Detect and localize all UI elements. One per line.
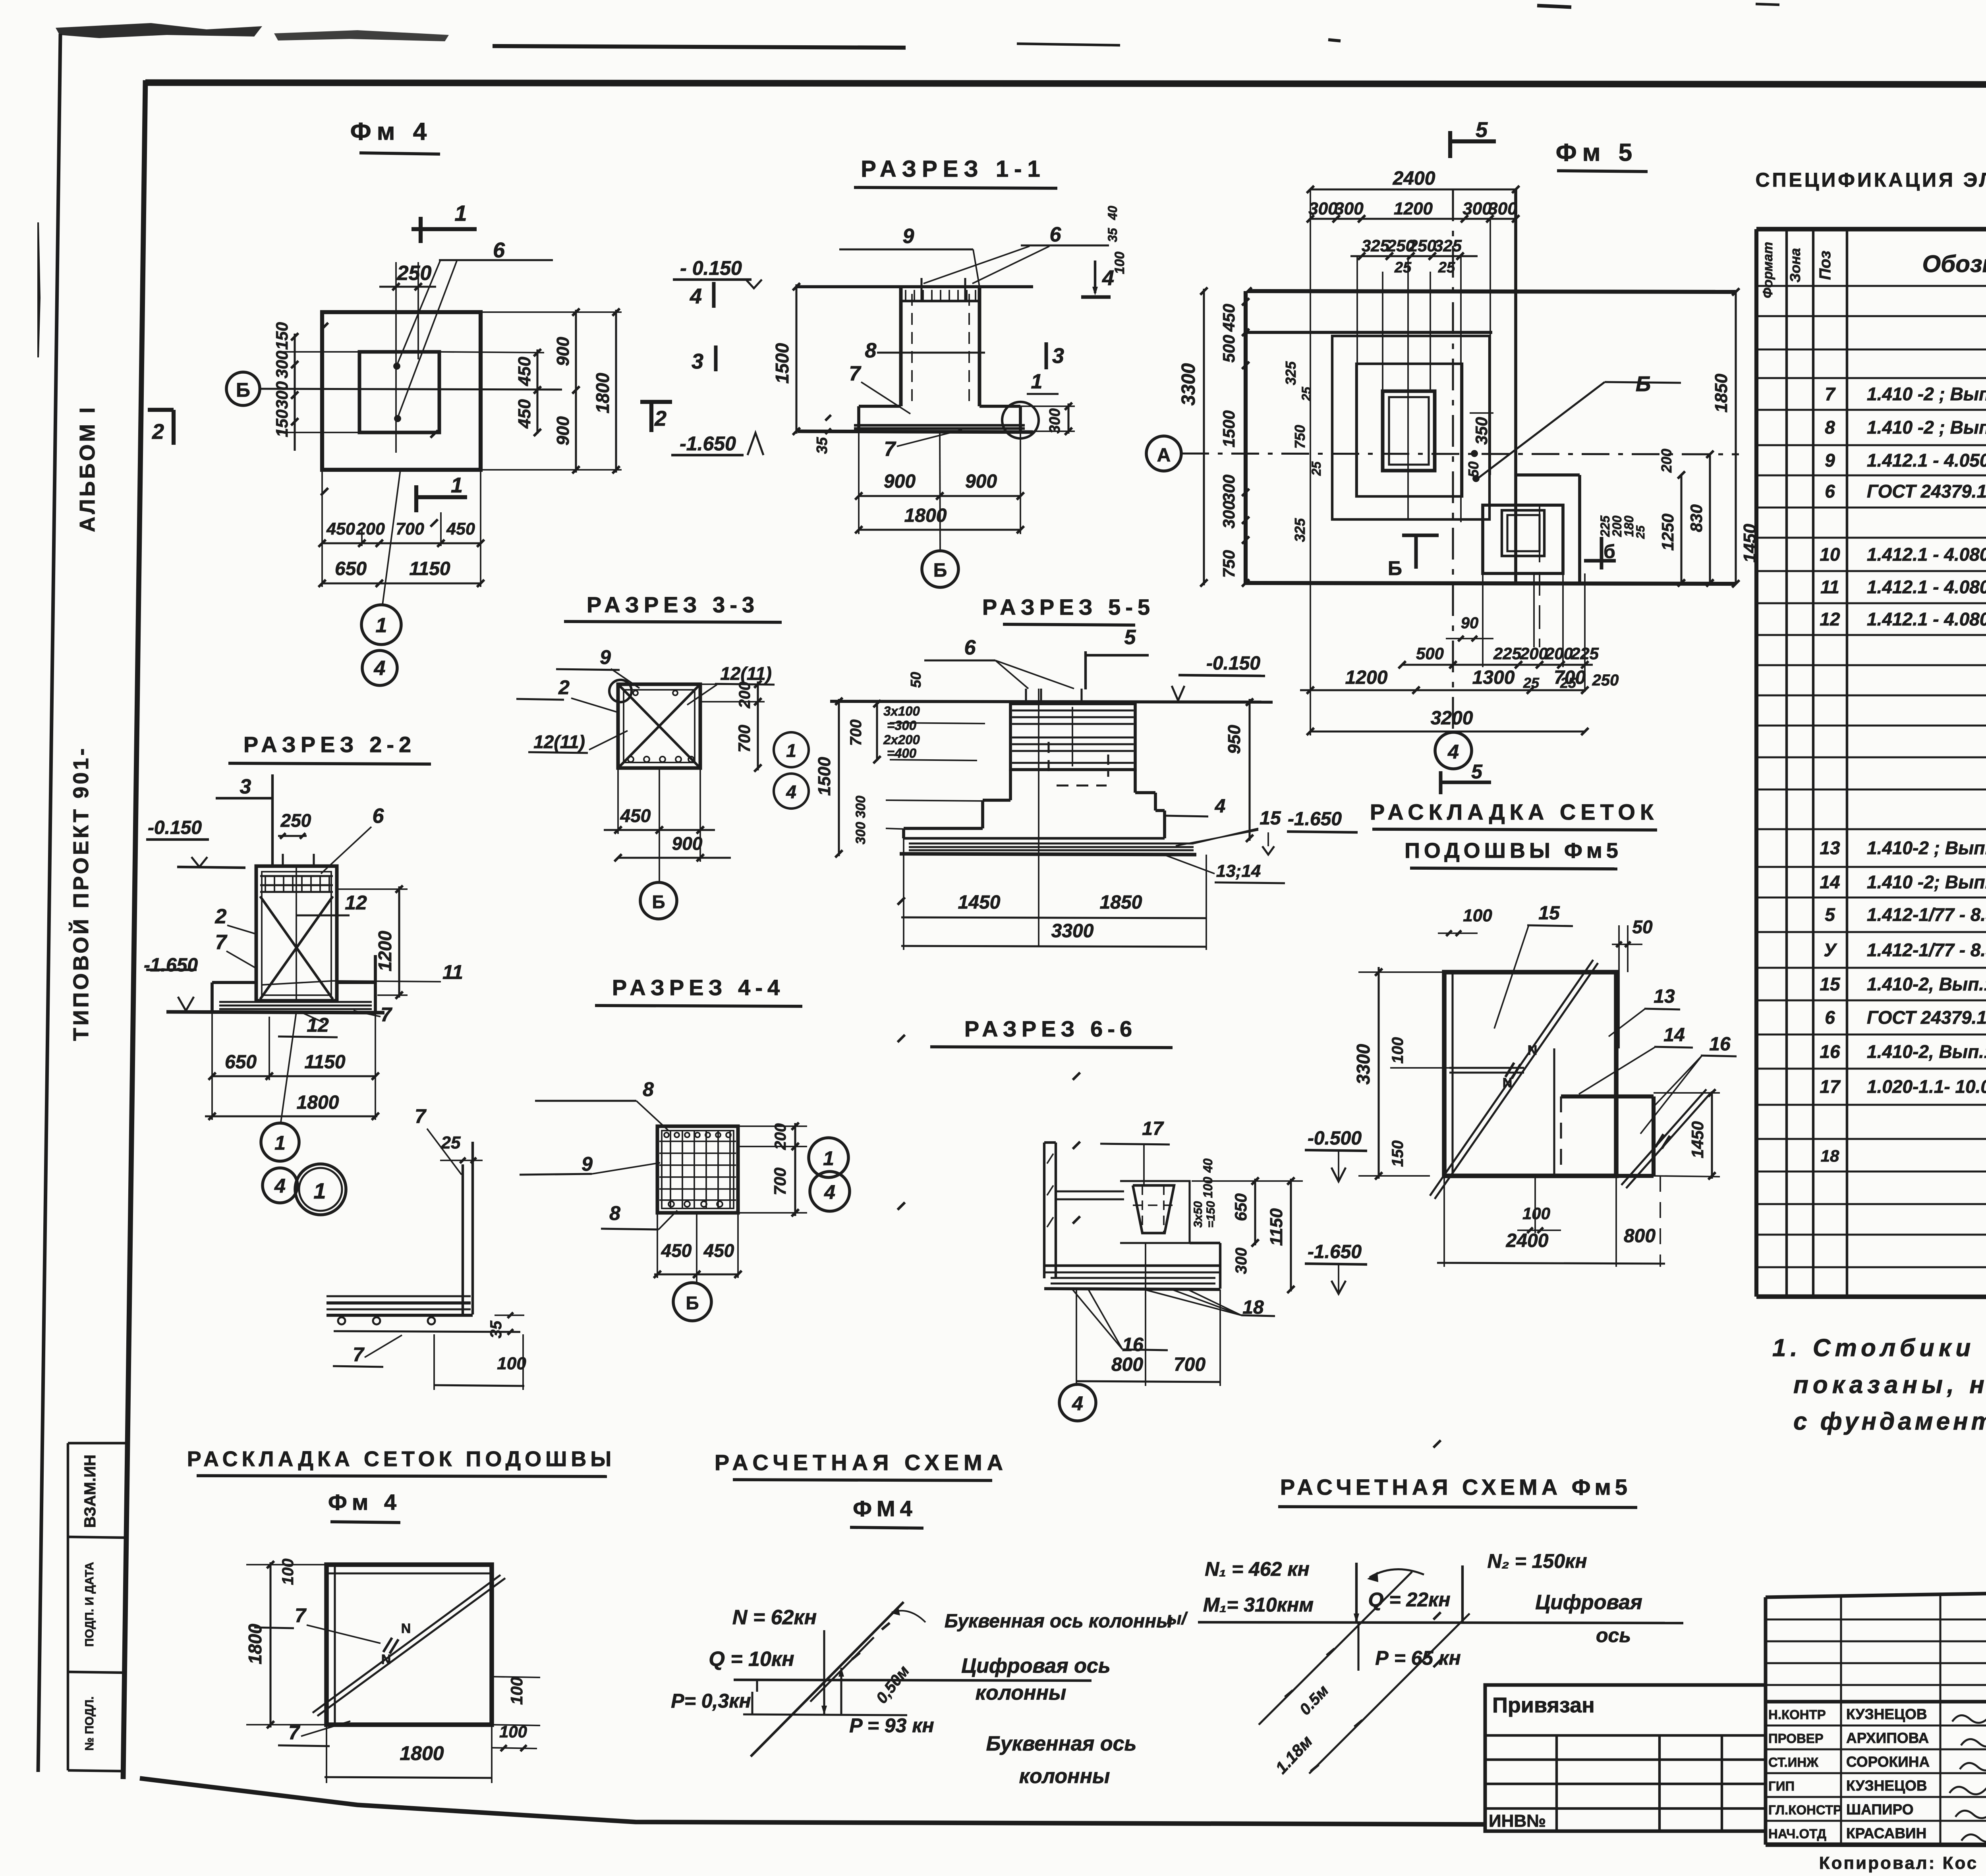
- svg-text:Б: Б: [933, 560, 947, 581]
- svg-text:200: 200: [772, 1123, 789, 1150]
- svg-text:РАЗРЕЗ 3-3: РАЗРЕЗ 3-3: [587, 592, 759, 617]
- svg-text:100: 100: [507, 1677, 526, 1705]
- svg-text:700: 700: [771, 1168, 789, 1195]
- svg-text:12: 12: [307, 1014, 329, 1036]
- svg-text:ГОСТ 24379.1- 80: ГОСТ 24379.1- 80: [1867, 481, 1986, 502]
- svg-text:РАСКЛАДКА СЕТОК: РАСКЛАДКА СЕТОК: [1370, 799, 1658, 824]
- mesh layout FM5 drawing: [1444, 972, 1616, 1176]
- svg-text:4: 4: [1215, 796, 1226, 817]
- svg-text:300: 300: [853, 796, 868, 818]
- svg-text:Поз: Поз: [1816, 251, 1834, 280]
- svg-text:15: 15: [1820, 974, 1841, 994]
- svg-text:колонны: колонны: [976, 1681, 1066, 1704]
- svg-text:8: 8: [609, 1202, 620, 1224]
- slab edge detail: [295, 1164, 346, 1215]
- svg-text:100: 100: [499, 1722, 527, 1741]
- svg-text:325: 325: [1292, 518, 1308, 542]
- svg-text:800: 800: [1111, 1354, 1143, 1375]
- svg-text:б: б: [1603, 541, 1615, 562]
- svg-text:17: 17: [1820, 1076, 1841, 1097]
- svg-text:250: 250: [1408, 236, 1436, 255]
- svg-text:Б: Б: [1636, 372, 1651, 396]
- svg-text:35: 35: [1105, 228, 1120, 242]
- svg-text:ПОДП. И ДАТА: ПОДП. И ДАТА: [83, 1562, 96, 1647]
- svg-text:-1.650: -1.650: [1308, 1241, 1362, 1262]
- svg-text:200: 200: [1658, 449, 1675, 473]
- svg-text:450: 450: [326, 519, 355, 538]
- svg-text:N: N: [401, 1621, 411, 1636]
- svg-text:6: 6: [493, 238, 505, 262]
- svg-text:450: 450: [1219, 304, 1238, 332]
- svg-text:1150: 1150: [304, 1052, 346, 1073]
- mesh layout FM5 title: [1439, 771, 1443, 794]
- svg-text:Q = 10кн: Q = 10кн: [709, 1648, 794, 1671]
- svg-text:300: 300: [1233, 1248, 1250, 1274]
- svg-text:300: 300: [1219, 501, 1238, 529]
- svg-text:ГЛ.КОНСТР: ГЛ.КОНСТР: [1768, 1803, 1842, 1817]
- svg-text:7: 7: [353, 1343, 365, 1366]
- svg-text:35: 35: [814, 437, 831, 454]
- svg-text:350: 350: [1472, 417, 1491, 445]
- svg-text:40: 40: [1201, 1158, 1215, 1173]
- svg-text:Копировал: Кос: Копировал: Кос: [1819, 1853, 1978, 1873]
- title block: [1766, 1585, 1986, 1597]
- svg-text:6: 6: [1050, 223, 1062, 246]
- svg-text:1.412-1/77 - 8.3 - 060: 1.412-1/77 - 8.3 - 060: [1867, 904, 1986, 925]
- svg-text:3: 3: [1052, 344, 1064, 368]
- svg-text:ГИП: ГИП: [1768, 1779, 1795, 1793]
- svg-text:950: 950: [1225, 725, 1244, 754]
- svg-text:1: 1: [274, 1132, 286, 1154]
- svg-text:700: 700: [1174, 1354, 1206, 1375]
- svg-text:ось: ось: [1596, 1624, 1631, 1646]
- svg-text:650: 650: [1231, 1193, 1250, 1221]
- svg-text:500: 500: [1416, 644, 1444, 663]
- svg-text:Зона: Зона: [1787, 248, 1803, 283]
- svg-text:40: 40: [1105, 206, 1120, 220]
- svg-text:2400: 2400: [1506, 1230, 1549, 1251]
- svg-text:300: 300: [853, 822, 868, 845]
- svg-text:P= 0,3кн: P= 0,3кн: [671, 1690, 751, 1712]
- svg-text:150: 150: [272, 322, 291, 350]
- svg-text:1.412-1/77 - 8.3 - 110: 1.412-1/77 - 8.3 - 110: [1867, 940, 1986, 960]
- svg-text:650: 650: [335, 558, 367, 579]
- svg-text:1300: 1300: [1472, 667, 1515, 688]
- svg-text:НАЧ.ОТД: НАЧ.ОТД: [1768, 1826, 1826, 1841]
- svg-text:1.412.1 - 4.080: 1.412.1 - 4.080: [1867, 544, 1986, 565]
- svg-text:-0.500: -0.500: [1308, 1128, 1362, 1149]
- svg-text:3200: 3200: [1431, 708, 1473, 729]
- svg-text:90: 90: [1461, 614, 1479, 632]
- svg-text:100: 100: [1201, 1177, 1215, 1198]
- svg-text:РАЗРЕЗ 6-6: РАЗРЕЗ 6-6: [964, 1016, 1137, 1041]
- svg-text:5: 5: [1471, 760, 1483, 783]
- svg-text:700: 700: [735, 725, 753, 753]
- svg-text:АРХИПОВА: АРХИПОВА: [1846, 1730, 1929, 1746]
- svg-text:14: 14: [1820, 872, 1840, 892]
- svg-text:1450: 1450: [958, 892, 1001, 913]
- svg-text:1.410-2 ; Вып.1: 1.410-2 ; Вып.1: [1867, 838, 1986, 858]
- svg-text:250: 250: [280, 810, 311, 831]
- svg-text:1850: 1850: [1100, 892, 1142, 913]
- svg-text:3: 3: [692, 349, 703, 373]
- svg-text:12: 12: [1820, 609, 1840, 629]
- svg-text:100: 100: [279, 1559, 297, 1585]
- svg-text:ШАПИРО: ШАПИРО: [1846, 1801, 1914, 1818]
- svg-text:1800: 1800: [297, 1092, 339, 1113]
- svg-text:2: 2: [152, 420, 164, 444]
- svg-text:300: 300: [1219, 475, 1238, 502]
- svg-text:РАЗРЕЗ 1-1: РАЗРЕЗ 1-1: [861, 156, 1045, 182]
- svg-text:200: 200: [356, 519, 385, 538]
- svg-text:ПРОВЕР: ПРОВЕР: [1768, 1731, 1824, 1746]
- svg-text:1800: 1800: [245, 1623, 265, 1664]
- privyazan table: [1485, 1685, 1766, 1831]
- svg-text:6: 6: [1825, 1007, 1835, 1028]
- svg-text:ВЗАМ.ИН: ВЗАМ.ИН: [81, 1455, 99, 1528]
- svg-text:1.410-2, Вып.1: 1.410-2, Вып.1: [1867, 1041, 1986, 1062]
- svg-text:9: 9: [582, 1153, 593, 1175]
- svg-text:5: 5: [1825, 904, 1835, 925]
- svg-text:700: 700: [847, 720, 865, 746]
- svg-text:ФМ4: ФМ4: [853, 1496, 917, 1521]
- svg-text:1.412.1 - 4.050: 1.412.1 - 4.050: [1867, 450, 1986, 471]
- svg-text:14: 14: [1663, 1025, 1685, 1046]
- svg-text:1800: 1800: [400, 1742, 444, 1764]
- svg-text:-1.650: -1.650: [1288, 809, 1342, 830]
- svg-text:5: 5: [1124, 626, 1136, 649]
- svg-text:300: 300: [272, 351, 291, 378]
- svg-text:1150: 1150: [409, 558, 450, 579]
- svg-text:-0.150: -0.150: [1206, 653, 1260, 674]
- svg-text:СПЕЦИФИКАЦИЯ ЭЛЕМЕНТОВ МОНОЛ: СПЕЦИФИКАЦИЯ ЭЛЕМЕНТОВ МОНОЛИТНОЙ КОНСТР…: [1755, 168, 1986, 191]
- svg-text:100: 100: [1389, 1037, 1406, 1064]
- svg-text:450: 450: [703, 1240, 734, 1261]
- svg-text:150: 150: [1389, 1141, 1406, 1167]
- svg-text:325: 325: [1434, 236, 1462, 255]
- svg-text:Фм 5: Фм 5: [1556, 139, 1638, 166]
- svg-text:225: 225: [1571, 644, 1599, 663]
- svg-text:500: 500: [1219, 335, 1238, 363]
- svg-text:Б: Б: [236, 379, 250, 401]
- svg-text:А: А: [1157, 445, 1171, 466]
- svg-text:N₂ = 150кн: N₂ = 150кн: [1487, 1550, 1587, 1572]
- svg-text:5: 5: [1476, 118, 1488, 142]
- svg-text:1.410 -2; Вып.1: 1.410 -2; Вып.1: [1867, 872, 1986, 892]
- svg-text:6: 6: [373, 805, 384, 828]
- svg-text:9: 9: [903, 225, 914, 248]
- svg-text:16: 16: [1709, 1034, 1731, 1055]
- svg-text:900: 900: [553, 416, 573, 446]
- svg-text:с фундаментам.: с фундаментам.: [1793, 1408, 1986, 1435]
- svg-text:Обозначение: Обозначение: [1922, 251, 1986, 277]
- svg-text:4: 4: [786, 782, 796, 802]
- svg-text:2: 2: [558, 676, 570, 699]
- svg-text:показаны, но выполнять их в од: показаны, но выполнять их в одной опалуб…: [1793, 1371, 1986, 1399]
- svg-text:100: 100: [497, 1354, 526, 1373]
- svg-text:3: 3: [240, 775, 251, 798]
- svg-text:=400: =400: [887, 746, 917, 760]
- svg-text:1500: 1500: [1219, 410, 1238, 447]
- svg-text:100: 100: [1522, 1204, 1550, 1223]
- svg-text:3х100: 3х100: [883, 704, 920, 718]
- svg-text:Формат: Формат: [1760, 242, 1775, 298]
- svg-text:РАСКЛАДКА СЕТОК ПОДОШВЫ: РАСКЛАДКА СЕТОК ПОДОШВЫ: [187, 1447, 616, 1471]
- svg-text:7: 7: [288, 1722, 300, 1744]
- page border frame: [38, 34, 60, 1772]
- svg-text:ы/: ы/: [1167, 1609, 1188, 1628]
- svg-text:250: 250: [1592, 672, 1619, 689]
- svg-text:1850: 1850: [1712, 374, 1731, 413]
- svg-text:4: 4: [374, 657, 386, 680]
- svg-text:900: 900: [553, 337, 573, 366]
- svg-text:№ ПОДЛ.: № ПОДЛ.: [83, 1696, 96, 1751]
- svg-text:N: N: [1503, 1075, 1513, 1090]
- svg-text:1: 1: [454, 201, 467, 226]
- svg-text:25: 25: [1309, 461, 1323, 476]
- svg-text:Буквенная ось: Буквенная ось: [986, 1732, 1137, 1755]
- svg-text:7: 7: [415, 1105, 427, 1127]
- svg-text:13: 13: [1820, 838, 1840, 858]
- svg-text:1800: 1800: [592, 372, 613, 413]
- svg-text:25: 25: [1634, 525, 1647, 539]
- svg-text:=150: =150: [1204, 1201, 1217, 1228]
- svg-text:N: N: [1528, 1043, 1538, 1058]
- svg-text:50: 50: [908, 672, 924, 688]
- svg-text:150: 150: [272, 409, 291, 437]
- svg-text:1450: 1450: [1688, 1121, 1707, 1158]
- svg-text:7: 7: [295, 1604, 307, 1627]
- svg-text:450: 450: [620, 805, 651, 826]
- svg-text:2: 2: [654, 407, 667, 430]
- svg-text:8: 8: [1825, 417, 1835, 438]
- svg-text:1200: 1200: [1394, 199, 1433, 218]
- svg-text:100: 100: [1463, 906, 1492, 925]
- svg-text:2: 2: [215, 905, 227, 928]
- svg-text:СОРОКИНА: СОРОКИНА: [1846, 1754, 1930, 1770]
- svg-text:200: 200: [736, 682, 753, 709]
- svg-text:325: 325: [1283, 361, 1299, 385]
- svg-text:У: У: [1824, 940, 1837, 960]
- svg-text:1.410-2, Вып.1: 1.410-2, Вып.1: [1867, 974, 1986, 994]
- svg-text:100: 100: [1112, 252, 1127, 274]
- svg-text:РАЗРЕЗ 4-4: РАЗРЕЗ 4-4: [612, 975, 784, 1000]
- svg-text:25: 25: [1394, 259, 1412, 276]
- svg-text:4: 4: [690, 284, 702, 308]
- svg-text:Цифровая: Цифровая: [1535, 1591, 1642, 1614]
- svg-text:РАЗРЕЗ 2-2: РАЗРЕЗ 2-2: [243, 732, 416, 757]
- svg-text:3300: 3300: [1178, 363, 1199, 405]
- svg-text:12(11): 12(11): [533, 731, 585, 752]
- svg-text:450: 450: [515, 357, 534, 386]
- svg-text:1.410 -2 ; Вып. 1: 1.410 -2 ; Вып. 1: [1867, 417, 1986, 438]
- svg-text:50: 50: [1632, 917, 1653, 937]
- svg-text:700: 700: [396, 519, 424, 538]
- svg-text:12: 12: [345, 892, 367, 914]
- svg-text:830: 830: [1687, 504, 1706, 532]
- svg-text:7: 7: [849, 362, 862, 385]
- svg-text:15: 15: [1538, 903, 1560, 924]
- svg-text:1500: 1500: [815, 757, 834, 796]
- svg-text:P = 93 кн: P = 93 кн: [849, 1714, 934, 1737]
- svg-text:13;14: 13;14: [1216, 861, 1261, 881]
- svg-text:9: 9: [1825, 450, 1835, 471]
- svg-text:7: 7: [215, 931, 228, 954]
- svg-text:1: 1: [313, 1178, 326, 1203]
- svg-text:1200: 1200: [375, 930, 395, 971]
- svg-text:3300: 3300: [1051, 921, 1094, 942]
- svg-text:300: 300: [272, 381, 291, 409]
- svg-text:-1.650: -1.650: [680, 432, 736, 455]
- svg-text:КУЗНЕЦОВ: КУЗНЕЦОВ: [1846, 1706, 1927, 1722]
- svg-text:КРАСАВИН: КРАСАВИН: [1846, 1825, 1926, 1841]
- svg-text:Б: Б: [1388, 557, 1402, 579]
- svg-text:17: 17: [1142, 1118, 1164, 1139]
- svg-text:6: 6: [1825, 481, 1835, 502]
- svg-text:N: N: [381, 1652, 391, 1667]
- svg-text:Фм 4: Фм 4: [350, 118, 433, 145]
- svg-text:Б: Б: [686, 1293, 699, 1313]
- svg-text:Б: Б: [652, 892, 665, 912]
- svg-text:0,50м: 0,50м: [873, 1662, 913, 1707]
- svg-text:900: 900: [672, 833, 703, 854]
- svg-text:КУЗНЕЦОВ: КУЗНЕЦОВ: [1846, 1778, 1927, 1794]
- svg-text:1: 1: [451, 473, 463, 497]
- left margin stamp strip: [67, 1443, 69, 1770]
- svg-text:1: 1: [376, 614, 387, 637]
- svg-text:250: 250: [397, 262, 432, 285]
- svg-text:50: 50: [1465, 461, 1482, 477]
- svg-text:Н.КОНТР: Н.КОНТР: [1768, 1707, 1826, 1722]
- svg-text:РАЗРЕЗ 5-5: РАЗРЕЗ 5-5: [982, 594, 1155, 620]
- svg-text:4: 4: [274, 1175, 286, 1197]
- svg-text:Q = 22кн: Q = 22кн: [1368, 1588, 1450, 1611]
- svg-text:800: 800: [1624, 1226, 1656, 1247]
- svg-text:Буквенная ось колонны: Буквенная ось колонны: [945, 1611, 1173, 1632]
- svg-text:16: 16: [1820, 1041, 1840, 1062]
- svg-text:16: 16: [1122, 1334, 1144, 1355]
- scan smudges top: [56, 23, 262, 38]
- svg-text:2х200: 2х200: [883, 732, 920, 747]
- svg-text:8: 8: [643, 1078, 654, 1100]
- svg-text:6: 6: [964, 636, 976, 659]
- svg-text:1250: 1250: [1658, 513, 1677, 550]
- svg-text:650: 650: [225, 1052, 257, 1073]
- svg-text:СТ.ИНЖ: СТ.ИНЖ: [1768, 1755, 1818, 1770]
- svg-text:7: 7: [1825, 384, 1836, 404]
- svg-text:700: 700: [1554, 667, 1586, 688]
- svg-text:Цифровая ось: Цифровая ось: [961, 1654, 1110, 1677]
- svg-text:7: 7: [884, 438, 896, 461]
- svg-text:4: 4: [1447, 741, 1459, 763]
- svg-text:450: 450: [446, 519, 475, 538]
- svg-text:N₁ = 462 кн: N₁ = 462 кн: [1205, 1558, 1310, 1580]
- svg-text:1200: 1200: [1345, 667, 1388, 688]
- svg-text:1.18м: 1.18м: [1272, 1732, 1316, 1778]
- svg-text:25: 25: [1438, 259, 1455, 276]
- svg-text:РАСЧЕТНАЯ СХЕМА Фм5: РАСЧЕТНАЯ СХЕМА Фм5: [1280, 1475, 1631, 1500]
- svg-text:1: 1: [1031, 370, 1043, 393]
- svg-text:1.020-1.1- 10.0.10: 1.020-1.1- 10.0.10: [1867, 1076, 1986, 1097]
- svg-text:1.412.1 - 4.080: 1.412.1 - 4.080: [1867, 577, 1986, 597]
- svg-text:25: 25: [1299, 386, 1314, 401]
- svg-text:1150: 1150: [1267, 1208, 1286, 1246]
- svg-text:450: 450: [661, 1240, 692, 1261]
- svg-text:0.5м: 0.5м: [1296, 1682, 1332, 1718]
- svg-text:ИНВ№: ИНВ№: [1489, 1811, 1546, 1831]
- svg-text:1: 1: [823, 1147, 834, 1170]
- specification table grid: [1756, 227, 1986, 232]
- svg-text:25: 25: [441, 1133, 461, 1152]
- svg-text:750: 750: [1219, 550, 1238, 578]
- svg-text:4: 4: [824, 1181, 835, 1203]
- svg-text:-0.150: -0.150: [148, 817, 202, 838]
- svg-text:11: 11: [442, 961, 463, 983]
- svg-text:3х50: 3х50: [1192, 1201, 1205, 1228]
- svg-text:9: 9: [600, 646, 611, 668]
- svg-text:7: 7: [381, 1004, 392, 1026]
- svg-text:225: 225: [1493, 644, 1522, 663]
- svg-text:10: 10: [1820, 544, 1840, 565]
- svg-text:325: 325: [1362, 236, 1390, 255]
- svg-text:450: 450: [515, 399, 534, 429]
- svg-text:колонны: колонны: [1019, 1765, 1110, 1788]
- svg-text:ПОДОШВЫ Фм5: ПОДОШВЫ Фм5: [1404, 839, 1622, 863]
- svg-text:900: 900: [965, 471, 997, 492]
- svg-text:ТИПОВОЙ ПРОЕКТ 901-: ТИПОВОЙ ПРОЕКТ 901-: [69, 746, 93, 1041]
- svg-text:200: 200: [1520, 644, 1548, 663]
- svg-text:2400: 2400: [1393, 168, 1435, 189]
- svg-text:12(11): 12(11): [720, 663, 772, 684]
- svg-text:1500: 1500: [772, 343, 792, 384]
- svg-text:1: 1: [786, 740, 796, 761]
- svg-text:ГОСТ 24379.1- 80: ГОСТ 24379.1- 80: [1867, 1007, 1986, 1028]
- svg-text:900: 900: [884, 471, 916, 492]
- svg-text:11: 11: [1820, 577, 1839, 597]
- svg-text:18: 18: [1821, 1146, 1839, 1165]
- svg-text:8: 8: [865, 339, 877, 362]
- svg-text:750: 750: [1292, 425, 1308, 449]
- svg-text:300: 300: [1047, 408, 1063, 433]
- svg-text:1.410 -2 ; Вып. 1: 1.410 -2 ; Вып. 1: [1867, 384, 1986, 404]
- svg-text:4: 4: [1072, 1392, 1083, 1415]
- svg-text:Фм 4: Фм 4: [328, 1490, 401, 1515]
- svg-text:-1.650: -1.650: [144, 955, 198, 976]
- svg-text:3300: 3300: [1353, 1044, 1374, 1085]
- svg-text:15: 15: [1260, 808, 1281, 829]
- svg-text:35: 35: [487, 1320, 505, 1338]
- svg-text:1.412.1 - 4.080: 1.412.1 - 4.080: [1867, 609, 1986, 629]
- svg-text:N = 62кн: N = 62кн: [732, 1606, 817, 1629]
- svg-text:13: 13: [1654, 986, 1675, 1007]
- svg-text:М₁= 310кнм: М₁= 310кнм: [1203, 1594, 1314, 1616]
- svg-text:АЛЬБОМ I: АЛЬБОМ I: [75, 405, 99, 532]
- svg-text:РАСЧЕТНАЯ СХЕМА: РАСЧЕТНАЯ СХЕМА: [715, 1450, 1008, 1475]
- svg-text:- 0.150: - 0.150: [680, 257, 742, 279]
- svg-text:Привязан: Привязан: [1492, 1693, 1595, 1717]
- svg-text:200: 200: [1545, 644, 1573, 663]
- svg-text:1. Столбики под фундаментные: 1. Столбики под фундаментные балки услов…: [1772, 1334, 1986, 1362]
- svg-text:=300: =300: [887, 718, 917, 733]
